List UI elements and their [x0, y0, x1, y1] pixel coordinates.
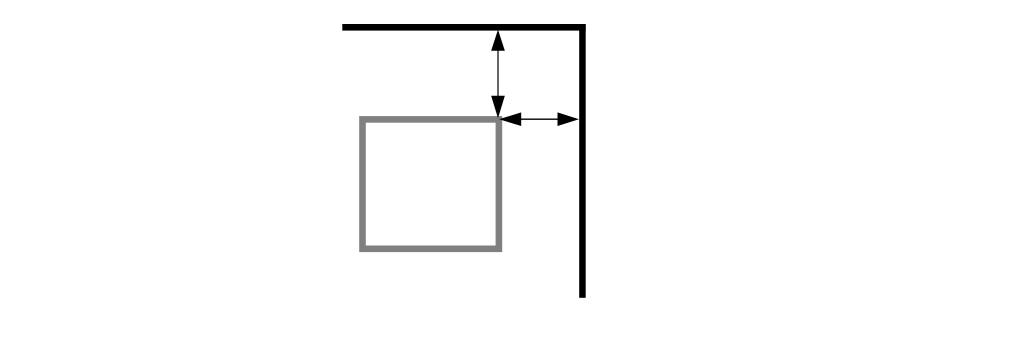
- horizontal arrow right head: [558, 112, 580, 126]
- vertical offset arrow (double-headed): [491, 30, 505, 119]
- horizontal offset arrow (double-headed): [499, 112, 579, 126]
- wire horizontal arrow shaft: [519, 118, 559, 120]
- top wall line: [342, 24, 585, 31]
- horizontal arrow left head: [499, 112, 521, 126]
- vertical arrow bottom head: [491, 96, 505, 119]
- right wall line: [579, 24, 586, 298]
- gray square: [363, 119, 499, 248]
- vertical arrow top head: [491, 30, 505, 51]
- wire vertical arrow shaft: [497, 49, 499, 97]
